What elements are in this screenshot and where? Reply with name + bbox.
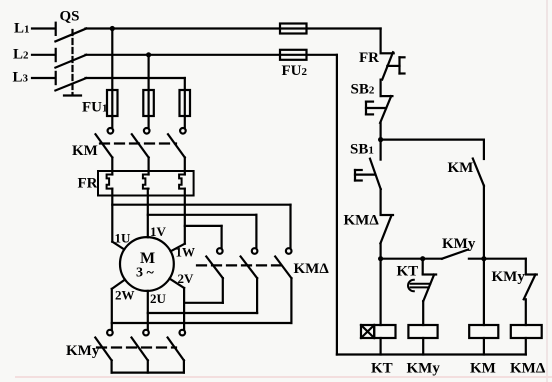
wire KM2 to FR [148,158,150,175]
button SB2 NC [366,96,392,123]
switch QS pole 1 [55,23,86,42]
wire phase W down [171,189,185,252]
contact KT delayed NO [408,259,436,325]
contactor KM main contact 3 [168,128,186,158]
wire KMdelta NC to junction B [380,243,382,325]
coil KMY [408,325,437,355]
node L3 label [13,70,29,86]
node L1 label [14,21,30,37]
contactor KM main contact 2 [132,128,150,158]
wire FU1 drop 1 [111,29,113,128]
contact KMY NC right [524,259,537,325]
wire 2U down [147,291,149,330]
wire SB1 to KMdelta NC [380,189,382,214]
wire left rail [336,55,338,355]
wire feeder 1U to KMdelta3 [112,205,290,249]
svg-text:SB2: SB2 [351,82,375,98]
fuse FU2 label [282,63,308,79]
svg-text:FR: FR [359,50,379,66]
switch QS pole 3 [55,72,86,91]
wire L3 stub [32,77,55,79]
svg-text:L3: L3 [13,70,29,86]
motor M label [140,250,155,267]
contact KMdelta NC [380,215,393,243]
pin 2W label [115,288,135,303]
node junction KT branch [420,256,425,261]
coil KM label [470,361,496,377]
pin 1U label [115,231,132,246]
contactor KM main contact 1 [96,128,114,158]
wire right rail top [380,29,382,52]
wire feeder 2V to KMdelta1 bottom [184,302,223,304]
node junction A [378,137,383,142]
relay FR box [98,171,194,196]
contactor KMY contact 1 [95,330,112,373]
contact KT label [397,264,419,280]
node L2 label [13,47,29,63]
contactor KMdelta contact 1 [206,248,223,303]
svg-text:1U: 1U [115,231,132,246]
svg-text:KMy: KMy [442,236,476,252]
switch QS pole 2 [55,49,86,68]
fuse FU1-2 [143,90,154,116]
contactor KMdelta label [294,261,330,277]
contactor KMY contact 3 [168,330,186,373]
svg-text:FU2: FU2 [282,63,308,79]
svg-text:KM: KM [72,143,98,159]
wire FU1 drop 2 [148,55,150,128]
wire L2 bus [86,54,337,56]
svg-text:KMy: KMy [492,269,526,285]
wire SB2 to junction A [380,123,382,160]
wire L1 stub [32,27,55,29]
svg-text:L2: L2 [13,47,29,63]
node junction L1-FU1 [110,26,115,31]
node junction L2-FU1 [146,52,151,57]
wire junction A to KM aux [381,139,484,141]
button SB2 label [351,82,375,98]
svg-text:1V: 1V [150,224,167,239]
pin 2U label [150,291,167,306]
coil KMdelta [511,325,542,355]
fuse FU2-1 [280,24,307,34]
edge artifact bottom [15,376,552,378]
fuse FU1 label [82,100,108,116]
svg-text:KT: KT [397,264,419,280]
wire KMY star bus [112,372,184,374]
contactor KMY label [66,343,100,359]
wire junction B to KT branch [381,258,442,260]
contactor KM linkage dashed [100,142,176,144]
button SB1 label [350,142,374,158]
svg-text:QS: QS [60,9,80,25]
svg-text:KMΔ: KMΔ [510,361,546,377]
relay contact FR label [359,50,379,66]
motor M circle [120,237,174,291]
contactor KMY contact 2 [132,330,149,373]
svg-text:SB1: SB1 [350,142,374,158]
pin 2V label [178,271,195,286]
svg-text:2U: 2U [150,291,167,306]
node junction KM branch [481,256,486,261]
relay FR heater 3 [179,175,185,189]
wire feeder 2W to KMdelta3 bottom [112,322,292,324]
relay FR heater 1 [107,175,113,189]
button SB1 NO [355,159,381,189]
svg-text:KT: KT [371,361,393,377]
fuse FU1-3 [180,90,191,116]
contact KMY NO horizontal [442,250,526,259]
contact KM aux NO [473,140,484,325]
contactor KMdelta linkage dashed [197,264,285,266]
motor 3~ label [136,266,155,281]
wire FU1 drop 3 [184,78,186,128]
svg-text:KM: KM [448,160,474,176]
wire feeder 1W to KMdelta1 [185,226,222,248]
relay contact FR NC [381,52,405,79]
node junction B [378,256,383,261]
contactor KMdelta contact 3 [275,248,291,323]
contact KMY NC label [492,269,526,285]
pin 1V label [150,224,167,239]
wire 2V down [170,279,185,330]
svg-text:KMy: KMy [407,361,441,377]
wire feeder 1V to KMdelta2 [148,215,257,248]
coil KMY label [407,361,441,377]
contact KMY NO label [442,236,476,252]
wire phase U down [112,189,124,250]
fuse FU1-1 [107,90,118,116]
svg-text:2W: 2W [115,288,135,303]
wire KM3 to FR [184,158,186,175]
wire bottom bus [337,353,526,355]
coil KT [361,325,396,355]
relay FR label [78,176,98,192]
contactor KMY linkage dashed [97,346,176,348]
svg-text:KMΔ: KMΔ [344,213,380,229]
svg-text:FU1: FU1 [82,100,108,116]
svg-text:L1: L1 [14,21,30,37]
pin 1W label [176,245,196,260]
wire L3 run [86,77,185,79]
wire KM1 to FR [111,158,113,175]
switch QS linkage dashed [64,30,81,96]
relay FR heater 2 [143,175,149,189]
wire FR to SB2 [380,80,382,96]
svg-text:FR: FR [78,176,98,192]
contact KMdelta NC label [344,213,380,229]
fuse FU2-2 [280,50,307,60]
wire feeder 2U to KMdelta2 bottom [148,312,257,314]
svg-text:M: M [140,250,155,267]
coil KM [469,325,498,355]
wire 2W down [112,280,125,330]
edge artifact right [546,0,548,382]
contactor KM label [72,143,98,159]
contactor KMdelta contact 2 [241,248,258,313]
svg-text:3 ~: 3 ~ [136,266,155,281]
coil KT label [371,361,393,377]
wire phase V down [147,189,149,238]
wire L2 stub [32,54,55,56]
svg-text:KMy: KMy [66,343,100,359]
svg-text:2V: 2V [178,271,195,286]
svg-text:KMΔ: KMΔ [294,261,330,277]
svg-text:KM: KM [470,361,496,377]
wire L1 bus [86,27,381,29]
svg-text:1W: 1W [176,245,196,260]
contact KM aux label [448,160,474,176]
coil KMdelta label [510,361,546,377]
switch QS label [60,9,80,25]
